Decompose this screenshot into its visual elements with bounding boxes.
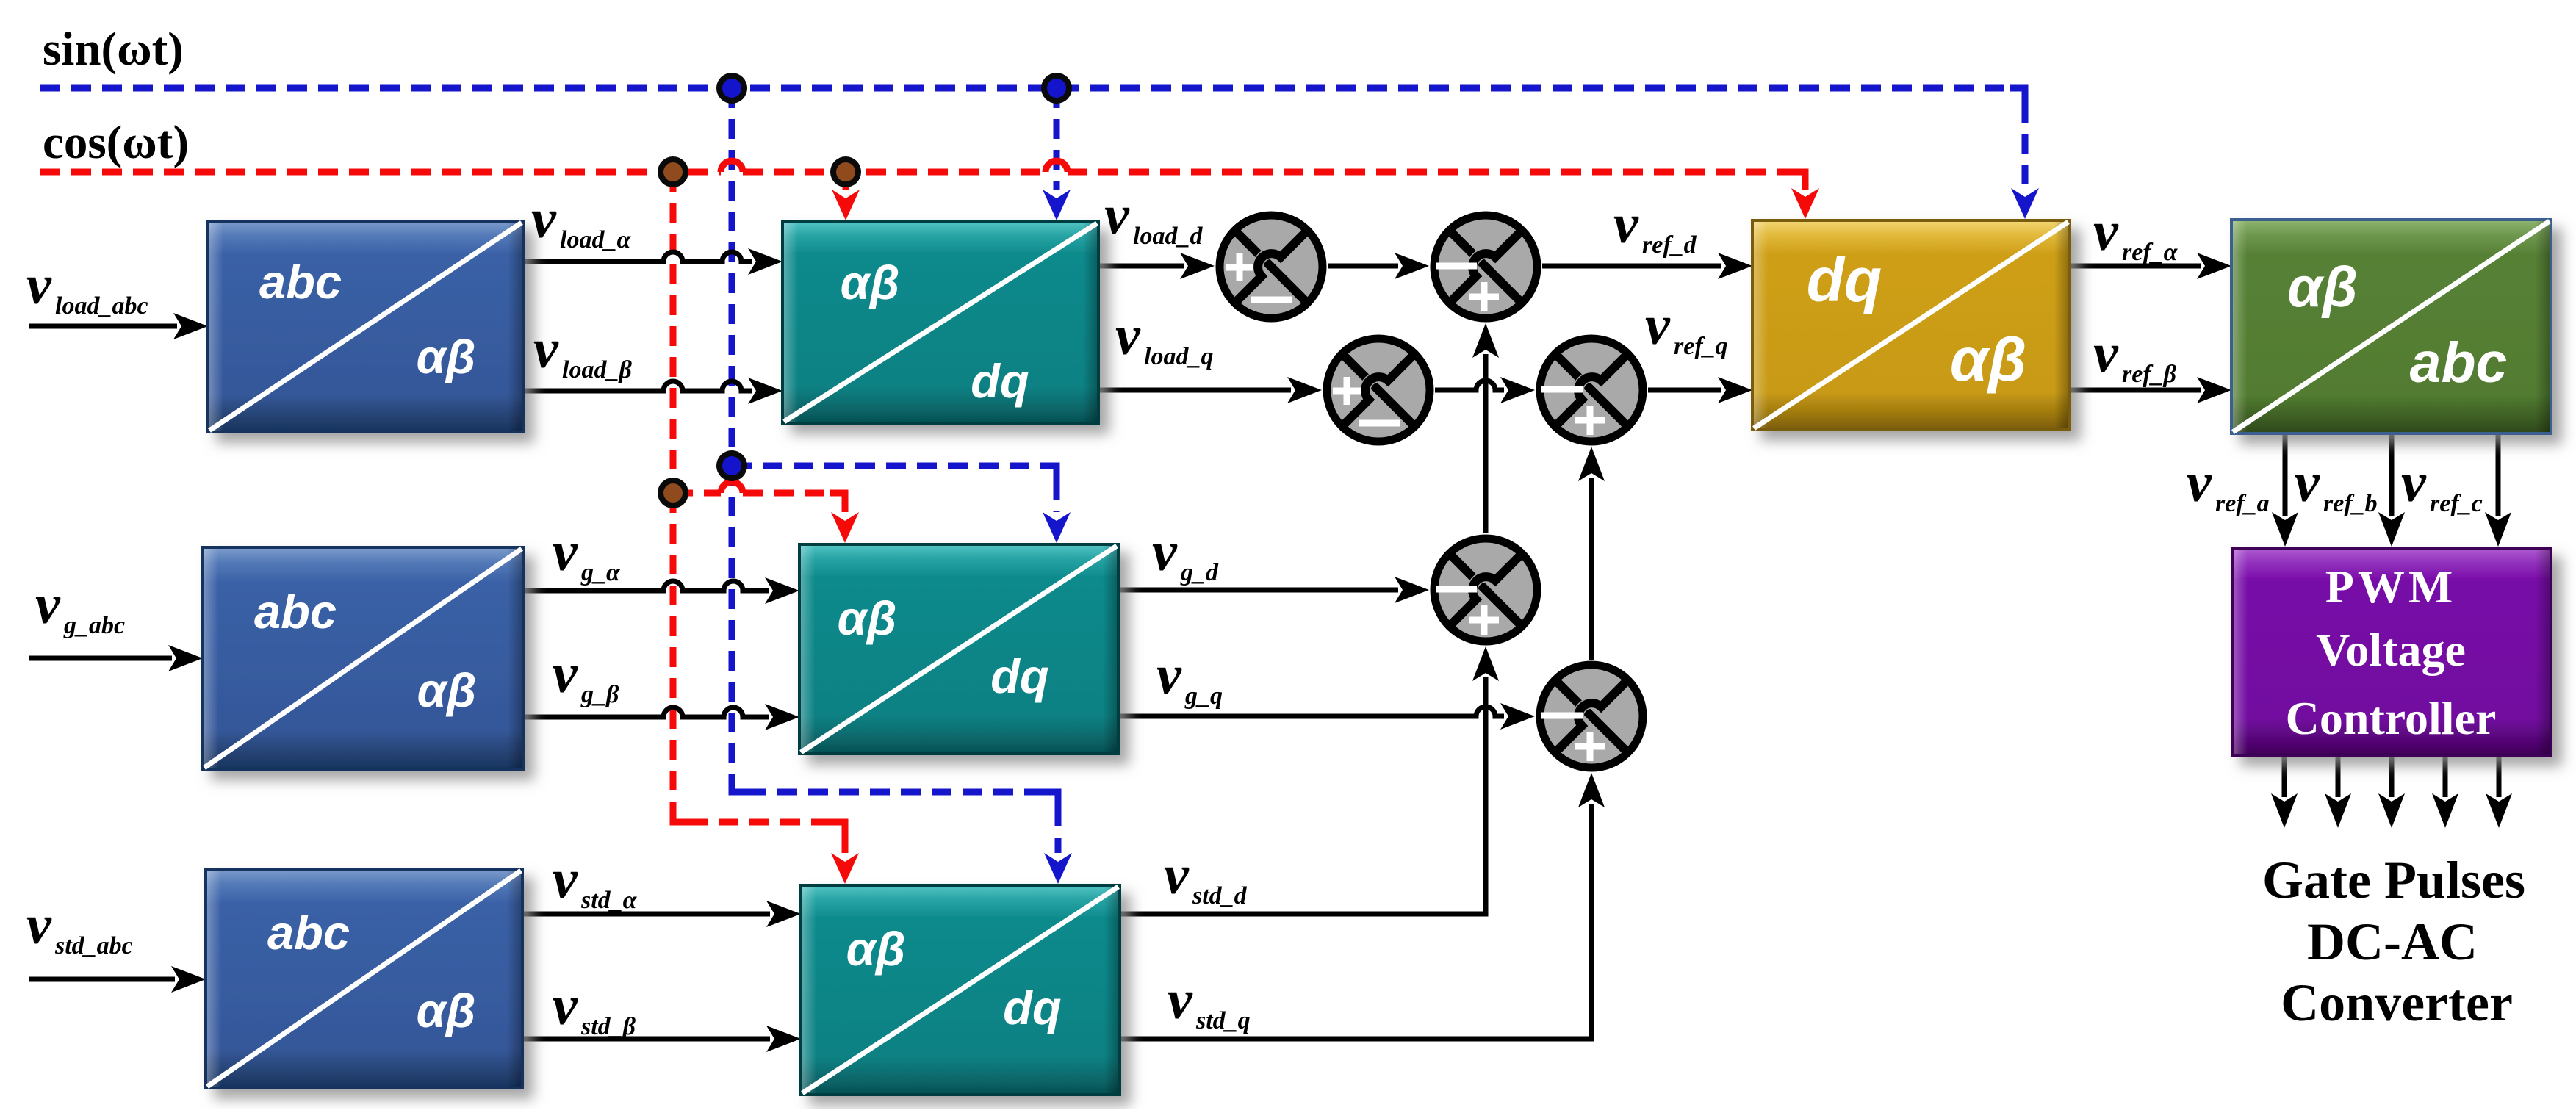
svg-text:std_q: std_q — [1195, 1007, 1251, 1034]
svg-text:v: v — [2401, 452, 2427, 514]
svg-text:v: v — [1168, 969, 1193, 1031]
svg-text:αβ: αβ — [2287, 256, 2358, 319]
svg-text:v: v — [531, 188, 557, 250]
svg-text:v: v — [1645, 295, 1671, 356]
svg-text:std_α: std_α — [580, 887, 638, 914]
svg-text:v: v — [2187, 452, 2212, 514]
svg-text:v: v — [2093, 201, 2119, 262]
svg-text:std_β: std_β — [580, 1013, 636, 1040]
svg-text:v: v — [1613, 193, 1639, 255]
svg-text:v: v — [553, 849, 578, 910]
svg-text:αβ: αβ — [838, 591, 897, 645]
svg-text:std_d: std_d — [1192, 882, 1248, 910]
svg-text:load_abc: load_abc — [55, 292, 148, 320]
svg-text:v: v — [1156, 644, 1182, 706]
svg-text:abc: abc — [267, 906, 350, 959]
svg-text:v: v — [553, 975, 578, 1037]
svg-text:cos(ωt): cos(ωt) — [43, 116, 189, 169]
svg-text:v: v — [2295, 452, 2320, 514]
svg-text:abc: abc — [254, 585, 337, 638]
svg-text:dq: dq — [971, 354, 1029, 408]
svg-text:dq: dq — [1807, 245, 1882, 314]
svg-text:Voltage: Voltage — [2316, 624, 2466, 676]
svg-text:v: v — [1115, 305, 1141, 367]
svg-text:v: v — [533, 318, 559, 380]
svg-text:Converter: Converter — [2281, 973, 2513, 1032]
svg-text:ref_α: ref_α — [2122, 239, 2179, 266]
svg-text:std_abc: std_abc — [54, 932, 133, 959]
svg-text:dq: dq — [1003, 981, 1061, 1034]
svg-text:DC-AC: DC-AC — [2307, 912, 2478, 971]
svg-text:v: v — [553, 643, 578, 705]
svg-text:αβ: αβ — [1950, 325, 2026, 394]
svg-text:Gate Pulses: Gate Pulses — [2262, 851, 2525, 910]
svg-text:ref_a: ref_a — [2215, 490, 2270, 517]
svg-text:dq: dq — [990, 649, 1048, 703]
svg-text:αβ: αβ — [417, 984, 476, 1037]
svg-text:αβ: αβ — [417, 663, 477, 717]
svg-text:ref_d: ref_d — [1642, 231, 1697, 259]
svg-text:g_d: g_d — [1180, 559, 1219, 586]
svg-text:Controller: Controller — [2286, 692, 2497, 744]
svg-text:αβ: αβ — [841, 256, 900, 309]
svg-text:PWM: PWM — [2325, 561, 2457, 613]
svg-text:v: v — [35, 574, 61, 635]
svg-text:load_d: load_d — [1133, 223, 1203, 250]
svg-text:v: v — [2093, 323, 2119, 384]
svg-text:g_abc: g_abc — [63, 612, 125, 639]
svg-text:ref_β: ref_β — [2122, 361, 2177, 388]
svg-text:v: v — [1152, 521, 1178, 583]
svg-text:v: v — [553, 521, 578, 583]
svg-text:g_β: g_β — [580, 681, 619, 708]
svg-text:abc: abc — [259, 255, 342, 309]
svg-text:ref_c: ref_c — [2430, 490, 2483, 517]
svg-text:αβ: αβ — [417, 330, 476, 383]
svg-text:abc: abc — [2410, 331, 2508, 395]
svg-text:v: v — [1164, 844, 1190, 906]
svg-text:v: v — [1104, 184, 1130, 246]
svg-text:ref_q: ref_q — [1674, 333, 1728, 360]
svg-text:load_β: load_β — [562, 356, 632, 383]
svg-text:g_α: g_α — [580, 559, 621, 586]
svg-text:αβ: αβ — [846, 922, 906, 976]
svg-text:sin(ωt): sin(ωt) — [43, 23, 184, 76]
svg-text:g_q: g_q — [1184, 682, 1223, 710]
svg-text:load_q: load_q — [1144, 343, 1213, 370]
svg-text:v: v — [26, 254, 52, 316]
svg-text:load_α: load_α — [560, 226, 631, 253]
svg-text:v: v — [26, 894, 52, 956]
svg-text:ref_b: ref_b — [2323, 490, 2378, 517]
